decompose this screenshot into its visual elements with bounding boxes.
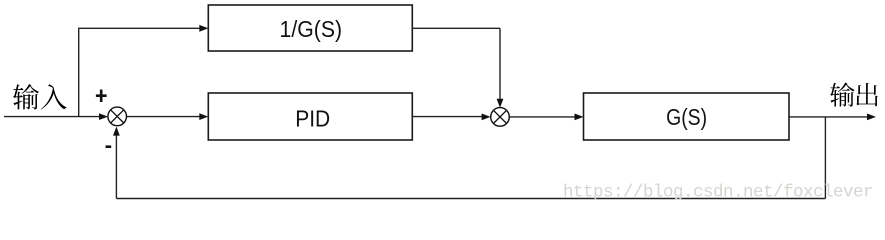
wire branch vertical up to feedforward [78, 28, 80, 116]
wire feedback vertical down at tap [824, 117, 826, 199]
arrowhead output [867, 114, 876, 121]
wire S1 to PID [127, 116, 200, 118]
svg-text:G(S): G(S) [666, 104, 707, 130]
wire 1/G(S) output vertical down [499, 28, 501, 100]
wire G(S) to output [789, 116, 868, 118]
label output char 输 [830, 83, 855, 107]
wire 1/G(S) output horizontal [412, 27, 500, 29]
arrowhead into block PID [199, 113, 208, 120]
block 1/G(S) [208, 5, 412, 51]
label input char 输 [13, 84, 39, 110]
arrowhead into summing junction S2 from top [497, 99, 504, 108]
wire feedback bottom horizontal [116, 198, 825, 200]
label input char 入 [41, 84, 67, 109]
svg-text:PID: PID [295, 105, 330, 131]
summing junction S2 circle [491, 108, 510, 127]
wire PID to S2 [412, 116, 483, 118]
wire S2 to G(S) [509, 116, 576, 118]
plus sign at S1 [96, 90, 107, 103]
arrowhead into block G(S) [575, 114, 584, 121]
block PID [208, 93, 412, 140]
minus sign at S1 [106, 145, 112, 148]
label output char 出 [856, 83, 878, 106]
summing junction S2 cross [493, 110, 506, 123]
wire feedback vertical up into S1 [115, 133, 117, 199]
arrowhead into summing junction S2 from left [482, 114, 491, 121]
arrowhead into block 1/G(S) [199, 25, 208, 32]
arrowhead into summing junction S1 [99, 113, 108, 120]
svg-text:https://blog.csdn.net/foxcleve: https://blog.csdn.net/foxclever [563, 182, 873, 202]
block G(S) [584, 93, 790, 140]
summing junction S1 circle [108, 107, 127, 126]
wire feedforward horizontal to 1/G(S) [78, 27, 200, 29]
arrowhead feedback into S1 from below [113, 127, 120, 136]
wire input horizontal [4, 116, 100, 118]
summing junction S1 cross [111, 110, 124, 123]
svg-text:1/G(S): 1/G(S) [280, 16, 343, 42]
